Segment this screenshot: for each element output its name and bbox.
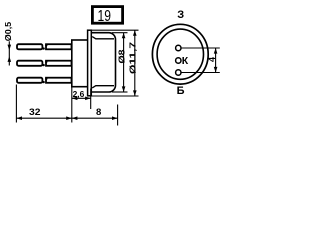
can rim line bottom <box>92 86 114 88</box>
svg-text:К: К <box>182 55 189 67</box>
can <box>90 33 116 92</box>
lead 2 (middle) <box>17 61 72 67</box>
figure number box 19 <box>92 7 122 25</box>
svg-text:32: 32 <box>29 107 41 118</box>
pin 2 <box>176 58 181 63</box>
end view inner circle <box>157 29 203 79</box>
svg-text:Ø0,5: Ø0,5 <box>4 21 13 41</box>
dimension 32 <box>16 85 71 123</box>
end view outer circle <box>152 24 208 84</box>
dimension diameter 11,7 <box>92 30 139 96</box>
dimension 8 <box>72 105 118 126</box>
can rim line top <box>92 37 114 39</box>
body base disc <box>72 40 89 87</box>
svg-text:4: 4 <box>207 57 217 62</box>
dimension lead diameter 0,5 <box>4 21 13 65</box>
svg-text:Ø11,7: Ø11,7 <box>127 42 137 74</box>
dimension 2,6 <box>72 89 91 110</box>
svg-text:19: 19 <box>98 8 112 25</box>
svg-text:З: З <box>177 9 184 21</box>
svg-text:Б: Б <box>177 85 185 97</box>
dimension 4 <box>181 48 220 73</box>
svg-text:2,6: 2,6 <box>73 89 85 99</box>
dimension diameter 8 <box>112 33 128 92</box>
pin 3 <box>176 70 181 75</box>
seam ring <box>88 30 92 96</box>
pin 1 <box>176 45 181 50</box>
lead 1 (top) <box>17 44 72 50</box>
lead 3 (bottom) <box>17 78 72 84</box>
svg-text:Ø8: Ø8 <box>116 49 126 63</box>
svg-text:8: 8 <box>96 107 101 118</box>
